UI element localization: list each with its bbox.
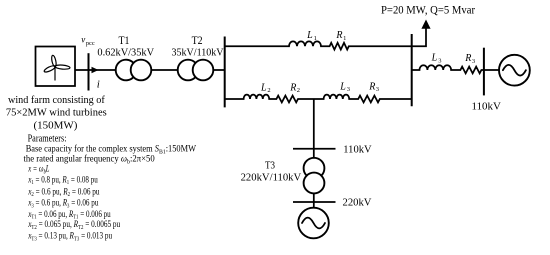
svg-text:3: 3	[438, 58, 441, 65]
svg-text:pcc: pcc	[86, 40, 95, 47]
svg-text:xT3 = 0.13 pu, RT3 = 0.013 pu: xT3 = 0.13 pu, RT3 = 0.013 pu	[27, 231, 112, 243]
svg-text:i: i	[97, 79, 100, 91]
svg-text:110kV: 110kV	[343, 144, 371, 156]
svg-text:2: 2	[297, 87, 300, 94]
svg-text:75×2MW wind turbines: 75×2MW wind turbines	[6, 106, 107, 118]
svg-text:0.62kV/35kV: 0.62kV/35kV	[97, 48, 154, 59]
svg-text:R: R	[335, 30, 342, 41]
svg-text:T3: T3	[265, 160, 275, 171]
svg-text:T2: T2	[192, 35, 203, 47]
svg-text:110kV: 110kV	[472, 101, 501, 113]
svg-text:T1: T1	[119, 35, 130, 47]
svg-text:wind farm consisting of: wind farm consisting of	[8, 94, 105, 106]
svg-text:R: R	[464, 53, 471, 64]
svg-text:v: v	[81, 34, 85, 44]
svg-text:3: 3	[472, 58, 475, 65]
svg-text:L: L	[339, 81, 346, 92]
svg-text:220kV: 220kV	[343, 197, 372, 209]
svg-text:x1 = 0.8 pu, R1 = 0.08 pu: x1 = 0.8 pu, R1 = 0.08 pu	[27, 174, 98, 186]
svg-text:R: R	[289, 82, 296, 93]
svg-text:1: 1	[314, 35, 317, 42]
svg-text:Parameters:: Parameters:	[28, 133, 67, 144]
svg-text:L: L	[306, 30, 313, 41]
svg-text:1: 1	[343, 35, 346, 42]
svg-text:(150MW): (150MW)	[34, 120, 78, 132]
svg-text:220kV/110kV: 220kV/110kV	[241, 172, 302, 184]
svg-text:x3 = 0.6 pu, R3 = 0.06 pu: x3 = 0.6 pu, R3 = 0.06 pu	[27, 198, 98, 210]
svg-text:xT2 = 0.065 pu, RT2 = 0.0065 p: xT2 = 0.065 pu, RT2 = 0.0065 pu	[27, 219, 120, 231]
svg-text:x2 = 0.6 pu, R2 = 0.06 pu: x2 = 0.6 pu, R2 = 0.06 pu	[27, 186, 100, 198]
svg-text:L: L	[431, 53, 438, 64]
svg-text:L: L	[260, 82, 267, 93]
svg-text:3: 3	[347, 86, 350, 93]
svg-text:R: R	[368, 81, 375, 92]
svg-text:35kV/110kV: 35kV/110kV	[172, 48, 224, 59]
svg-text:P=20 MW, Q=5 Mvar: P=20 MW, Q=5 Mvar	[381, 5, 475, 17]
svg-text:3: 3	[376, 86, 379, 93]
svg-text:2: 2	[267, 87, 270, 94]
